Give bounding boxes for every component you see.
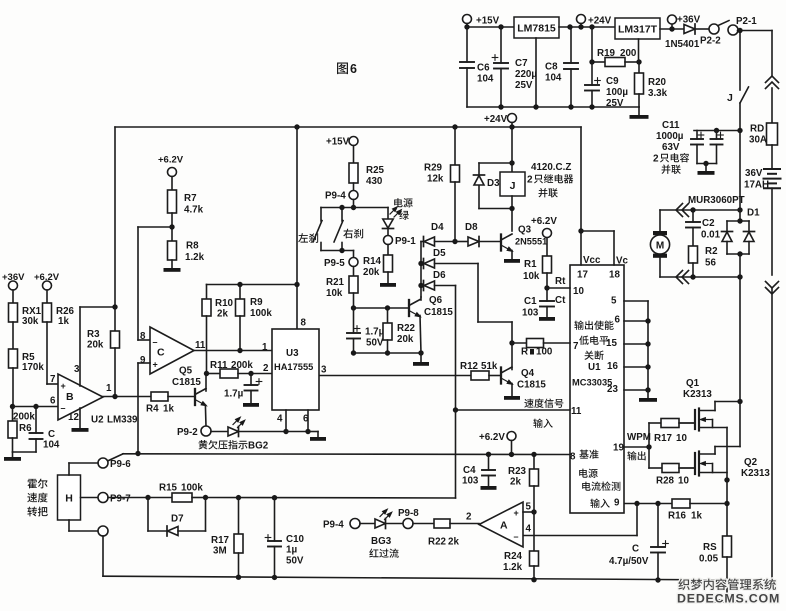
svg-text:1k: 1k bbox=[58, 316, 69, 327]
svg-text:–: – bbox=[514, 532, 519, 542]
resistor R3 20k bbox=[114, 127, 116, 331]
capacitor C6 104 bbox=[466, 27, 468, 62]
label 电流检测/输入9 bbox=[582, 481, 620, 490]
op-amp U2B LM339 bbox=[58, 374, 103, 420]
svg-text:R7: R7 bbox=[184, 193, 197, 204]
svg-text:4: 4 bbox=[277, 414, 283, 425]
svg-text:–: – bbox=[153, 337, 158, 347]
svg-text:4.7k: 4.7k bbox=[184, 205, 204, 216]
svg-text:6: 6 bbox=[615, 315, 621, 326]
svg-text:C1815: C1815 bbox=[424, 307, 453, 318]
svg-text:+15V: +15V bbox=[476, 16, 500, 27]
svg-text:3: 3 bbox=[74, 364, 80, 375]
svg-text:+24V: +24V bbox=[588, 16, 612, 27]
svg-text:+36V: +36V bbox=[2, 272, 25, 283]
svg-text:10: 10 bbox=[678, 476, 689, 487]
svg-text:1.2k: 1.2k bbox=[185, 252, 205, 263]
svg-text:10: 10 bbox=[676, 433, 687, 444]
transistor Q2 K2313 bbox=[680, 467, 695, 469]
svg-text:P9-5: P9-5 bbox=[324, 258, 345, 269]
svg-text:R17: R17 bbox=[654, 433, 673, 444]
label 4120.C.Z 2只继电器 并联 bbox=[531, 162, 571, 173]
wire right rail below battery bbox=[771, 188, 773, 275]
resistor R5 170k bbox=[9, 349, 18, 368]
svg-text:1µ: 1µ bbox=[286, 545, 297, 556]
svg-text:D1: D1 bbox=[747, 208, 760, 219]
resistor R19 200 bbox=[591, 27, 593, 62]
svg-text:C2: C2 bbox=[702, 218, 715, 229]
diode D7 (parallel R15) bbox=[147, 498, 149, 532]
wire H top to P9-6 bbox=[68, 463, 70, 475]
svg-text:20k: 20k bbox=[397, 334, 414, 345]
svg-text:6: 6 bbox=[50, 396, 56, 407]
diode D6 bbox=[421, 285, 424, 287]
wire Q5 collector bbox=[205, 374, 207, 392]
diode pair D1 bbox=[739, 210, 741, 221]
wire +15V to LM7815 input bbox=[466, 24, 468, 28]
ground (R8) bbox=[164, 268, 181, 272]
svg-text:P9-8: P9-8 bbox=[398, 508, 419, 519]
terminal P9-1 bbox=[384, 236, 393, 245]
svg-text:R29: R29 bbox=[424, 163, 443, 174]
svg-text:15: 15 bbox=[606, 338, 617, 349]
svg-text:4120.C.Z: 4120.C.Z bbox=[531, 162, 571, 173]
svg-text:R14: R14 bbox=[363, 256, 382, 267]
svg-text:100: 100 bbox=[536, 347, 553, 358]
wire ref line (+6.2V to pin 8) bbox=[123, 453, 570, 456]
svg-text:19: 19 bbox=[613, 443, 624, 454]
svg-text:P9-6: P9-6 bbox=[110, 459, 131, 470]
svg-text:R9: R9 bbox=[250, 297, 263, 308]
svg-text:200k: 200k bbox=[13, 412, 35, 423]
resistor R28 10 (gate) bbox=[649, 467, 662, 469]
battery 36V 17AH bbox=[764, 168, 780, 170]
svg-text:RS: RS bbox=[703, 542, 717, 553]
label U2 LM339 bbox=[91, 415, 138, 426]
svg-text:17: 17 bbox=[577, 270, 588, 281]
wire U3 pin4/pin6 to BG2 line bbox=[285, 410, 287, 432]
svg-text:LM7815: LM7815 bbox=[517, 23, 556, 35]
svg-text:20k: 20k bbox=[363, 267, 380, 278]
capacitor C8 104 bbox=[570, 27, 572, 63]
node WPM output (pin 19) bbox=[624, 446, 649, 448]
svg-text:2k: 2k bbox=[448, 537, 459, 548]
svg-text:C1: C1 bbox=[524, 296, 537, 307]
ground (C11) bbox=[705, 164, 707, 172]
svg-text:D4: D4 bbox=[431, 222, 444, 233]
chevron marks (down) bbox=[766, 282, 779, 289]
svg-text:WPM: WPM bbox=[627, 432, 651, 443]
terminal +6.2V (R1) bbox=[543, 229, 552, 238]
svg-text:Q1: Q1 bbox=[686, 378, 700, 389]
svg-text:P9-4: P9-4 bbox=[323, 520, 344, 531]
svg-text:1N5401: 1N5401 bbox=[665, 39, 700, 50]
resistor RS 0.05 bbox=[723, 536, 732, 557]
svg-text:DEDECMS.COM: DEDECMS.COM bbox=[677, 592, 780, 606]
svg-text:R19: R19 bbox=[597, 48, 616, 59]
ground (R6/C104) bbox=[12, 452, 14, 457]
svg-text:R8: R8 bbox=[186, 241, 199, 252]
svg-text:2: 2 bbox=[466, 512, 472, 523]
wire P9-6 branch bbox=[108, 454, 124, 461]
resistor R21 10k bbox=[353, 267, 355, 277]
ground (RS, under watermark) bbox=[726, 580, 728, 599]
wire power section bottom rail bbox=[467, 106, 639, 108]
op-amp U2A LM339 (mirrored) bbox=[479, 502, 523, 547]
svg-text:R16: R16 bbox=[668, 511, 687, 522]
svg-text:C9: C9 bbox=[606, 76, 619, 87]
svg-text:Rt: Rt bbox=[555, 276, 566, 287]
ground (power rail) bbox=[638, 107, 640, 115]
LED 电源绿 (green power) bbox=[387, 208, 389, 220]
resistor R20 3.3k bbox=[638, 62, 640, 73]
svg-text:R20: R20 bbox=[648, 77, 667, 88]
svg-text:103: 103 bbox=[462, 476, 479, 487]
svg-text:2: 2 bbox=[653, 154, 659, 165]
wire switched +36V down to motor node bbox=[739, 131, 741, 211]
svg-text:36V: 36V bbox=[745, 168, 763, 179]
sensor H (hall throttle) bbox=[58, 475, 81, 520]
svg-text:Q6: Q6 bbox=[429, 295, 443, 306]
svg-text:7: 7 bbox=[50, 374, 56, 385]
resistor R25 430 bbox=[353, 146, 355, 164]
svg-text:P9-2: P9-2 bbox=[177, 427, 198, 438]
svg-text:+15V: +15V bbox=[326, 137, 350, 148]
svg-text:25V: 25V bbox=[515, 80, 533, 91]
svg-text:8: 8 bbox=[140, 331, 146, 342]
IC U1 MC33035 bbox=[570, 265, 624, 513]
terminal +24V (mid) bbox=[508, 114, 517, 123]
svg-text:30k: 30k bbox=[22, 316, 39, 327]
wire brake top bbox=[321, 207, 388, 209]
svg-text:1.7µ: 1.7µ bbox=[365, 327, 385, 338]
svg-text:MUR3060PT: MUR3060PT bbox=[688, 195, 745, 206]
ground (Q4 emitter) bbox=[511, 384, 513, 397]
relay coil J (box) bbox=[511, 127, 513, 172]
svg-text:A: A bbox=[500, 520, 508, 532]
svg-text:Q2: Q2 bbox=[744, 457, 758, 468]
resistor R4 1k bbox=[151, 392, 168, 401]
svg-text:50V: 50V bbox=[366, 338, 384, 349]
diode D4 bbox=[421, 241, 424, 243]
resistor R1 10k bbox=[546, 238, 548, 257]
svg-text:2: 2 bbox=[527, 175, 533, 186]
watermark DEDECMS.COM bbox=[677, 592, 780, 606]
ground (C1) bbox=[539, 317, 555, 321]
svg-text:R23: R23 bbox=[508, 466, 527, 477]
svg-text:200k: 200k bbox=[231, 360, 253, 371]
wire Q6 base bbox=[354, 307, 410, 309]
svg-text:12: 12 bbox=[68, 412, 79, 423]
svg-text:R22: R22 bbox=[428, 537, 447, 548]
terminal +6.2V (mid) bbox=[507, 432, 516, 441]
svg-text:17AH: 17AH bbox=[744, 180, 769, 191]
svg-text:K2313: K2313 bbox=[683, 389, 712, 400]
resistor R9 100k bbox=[239, 285, 241, 300]
ground (Q3 emitter) bbox=[511, 251, 513, 260]
svg-text:R28: R28 bbox=[656, 476, 675, 487]
resistor R23 2k bbox=[533, 454, 535, 469]
terminal P9-5 bbox=[349, 258, 358, 267]
terminal P9-2 bbox=[201, 426, 211, 436]
wire Rt to pin 10 bbox=[547, 287, 570, 289]
svg-text:U1: U1 bbox=[588, 362, 601, 373]
switch blade P2 bbox=[718, 21, 729, 26]
resistor R11 200k bbox=[207, 373, 221, 375]
wire relay to Q3 collector bbox=[511, 196, 513, 231]
svg-text:C: C bbox=[157, 347, 165, 359]
diode D8 bbox=[455, 241, 468, 243]
label 速度信号/输入 bbox=[524, 399, 563, 408]
svg-text:C: C bbox=[632, 544, 639, 555]
svg-text:2: 2 bbox=[263, 363, 269, 374]
capacitor 1.7u (Q5) bbox=[250, 374, 252, 386]
wire pins 5,6,15,16,23 strapped bbox=[624, 300, 648, 302]
LED BG2 (黄欠压指示) bbox=[211, 431, 228, 433]
terminal P9-4 bbox=[349, 191, 358, 200]
label 基准/电源 bbox=[579, 450, 598, 459]
svg-text:Vcc: Vcc bbox=[583, 255, 601, 266]
resistor R8 1.2k bbox=[168, 241, 177, 260]
relay contact J bbox=[739, 31, 741, 91]
switch 左刹 (left brake) bbox=[320, 208, 322, 222]
svg-text:H: H bbox=[65, 493, 73, 505]
terminal P2-2 bbox=[709, 24, 719, 34]
wire Q6 emitter bbox=[420, 316, 421, 354]
svg-text:1k: 1k bbox=[163, 404, 174, 415]
ground (pins strap) bbox=[647, 390, 649, 398]
ground (R14) bbox=[380, 283, 396, 287]
svg-text:RD: RD bbox=[750, 124, 764, 135]
svg-text:C1815: C1815 bbox=[517, 380, 546, 391]
ground (BG2 line) bbox=[317, 432, 319, 438]
svg-text:11: 11 bbox=[195, 340, 206, 351]
svg-text:R17: R17 bbox=[211, 535, 230, 546]
svg-text:R4: R4 bbox=[146, 404, 159, 415]
regulator LM7815 bbox=[514, 17, 559, 38]
svg-text:430: 430 bbox=[366, 176, 383, 187]
svg-text:R11: R11 bbox=[210, 360, 228, 371]
terminal +24V (top) bbox=[577, 15, 586, 24]
resistor R24 1.2k bbox=[533, 512, 535, 551]
svg-text:9: 9 bbox=[140, 355, 146, 366]
svg-text:1: 1 bbox=[262, 342, 268, 353]
transistor Q5 C1815 bbox=[194, 389, 196, 405]
svg-text:C7: C7 bbox=[515, 58, 528, 69]
svg-text:10k: 10k bbox=[523, 271, 540, 282]
terminal P9-8 bbox=[403, 519, 413, 529]
transistor Q1 K2313 bbox=[680, 422, 695, 424]
svg-text:P9-7: P9-7 bbox=[110, 494, 131, 505]
svg-text:MC33035: MC33035 bbox=[572, 378, 612, 388]
svg-text:P9-1: P9-1 bbox=[395, 236, 416, 247]
svg-text:HA17555: HA17555 bbox=[274, 362, 313, 372]
wire pin 9 (C) to hall line bbox=[138, 362, 150, 364]
svg-text:63V: 63V bbox=[662, 142, 680, 153]
svg-text:6: 6 bbox=[350, 62, 357, 76]
wire LM7815 gnd pin bbox=[535, 38, 537, 107]
svg-text:4.7µ/50V: 4.7µ/50V bbox=[609, 556, 649, 567]
svg-text:+: + bbox=[514, 508, 519, 518]
svg-text:C11: C11 bbox=[662, 120, 680, 131]
wire pin 3 (B) bbox=[79, 307, 81, 386]
wire pin 12 ground bbox=[79, 408, 81, 428]
ground (Q6) bbox=[420, 353, 422, 362]
wire C11 top bbox=[694, 130, 740, 132]
svg-text:+6.2V: +6.2V bbox=[479, 432, 505, 443]
transistor Q4 C1815 bbox=[511, 343, 513, 370]
wire +24V rail right end down to Vcc pin17 bbox=[580, 127, 582, 265]
resistor R29 12k bbox=[454, 127, 456, 165]
wire right rail upper bbox=[771, 31, 773, 77]
resistor R1 100 (pin7) bbox=[512, 342, 527, 344]
svg-text:20k: 20k bbox=[87, 340, 104, 351]
svg-text:1: 1 bbox=[106, 383, 112, 394]
svg-text:3.3k: 3.3k bbox=[648, 88, 668, 99]
label Vcc / Vc bbox=[583, 255, 629, 267]
wire brake bottom bbox=[321, 250, 354, 252]
wire pin 5 bbox=[523, 511, 534, 513]
terminal +15V (top) bbox=[463, 15, 472, 24]
chevron marks (up) bbox=[766, 76, 779, 83]
capacitor C 4.7u/50V bbox=[657, 504, 659, 548]
svg-text:R25: R25 bbox=[366, 165, 385, 176]
svg-text:104: 104 bbox=[477, 74, 494, 85]
svg-text:9: 9 bbox=[614, 498, 620, 509]
resistor RX1 30k bbox=[12, 290, 14, 303]
svg-text:+36V: +36V bbox=[677, 15, 701, 26]
svg-text:D3: D3 bbox=[487, 178, 500, 189]
svg-text:R3: R3 bbox=[87, 329, 100, 340]
wire Q6 collector bbox=[420, 297, 422, 300]
terminal +36V (left) bbox=[9, 281, 18, 290]
svg-text:5: 5 bbox=[611, 296, 617, 307]
wire D-rail bbox=[420, 242, 422, 298]
svg-text:BG2: BG2 bbox=[248, 441, 269, 452]
label 图6 bbox=[337, 63, 348, 75]
svg-text:100k: 100k bbox=[250, 308, 272, 319]
IC U3 HA17555 bbox=[296, 127, 298, 329]
svg-text:+: + bbox=[61, 381, 66, 391]
wire R7/R8 junction to pin8 (C) bbox=[138, 226, 172, 228]
diode 1N5401 bbox=[684, 25, 695, 34]
label 左刹 bbox=[298, 233, 318, 243]
resistor R6 200k bbox=[12, 407, 14, 422]
wire right rail to bottom bbox=[771, 288, 773, 580]
svg-text:D7: D7 bbox=[171, 514, 184, 525]
svg-text:U3: U3 bbox=[286, 348, 299, 359]
svg-text:56: 56 bbox=[705, 258, 716, 269]
svg-text:3: 3 bbox=[321, 365, 327, 376]
svg-text:104: 104 bbox=[43, 440, 60, 451]
capacitor C 104 (left) bbox=[35, 407, 37, 434]
svg-text:1.7µ: 1.7µ bbox=[224, 389, 244, 400]
wire throttle to speed node bbox=[455, 410, 457, 498]
svg-text:3M: 3M bbox=[213, 546, 227, 557]
wire H mid to P9-7 bbox=[81, 497, 99, 499]
terminal P9-6 bbox=[98, 458, 108, 468]
label 输出 (WPM) bbox=[627, 451, 645, 460]
svg-text:D5: D5 bbox=[433, 248, 446, 259]
svg-text:51k: 51k bbox=[481, 361, 498, 372]
wire motor top bbox=[660, 209, 740, 211]
svg-text:1k: 1k bbox=[691, 511, 702, 522]
resistor R17 10 (gate) bbox=[649, 422, 661, 424]
wire bbox=[771, 145, 773, 168]
chevron cable mark bbox=[676, 204, 683, 217]
wire Q5 emitter to P9-2 bbox=[204, 405, 207, 426]
wire bbox=[771, 88, 773, 123]
wire bottom rail bbox=[103, 576, 772, 580]
svg-text:200: 200 bbox=[620, 48, 637, 59]
svg-text:J: J bbox=[510, 180, 516, 192]
svg-text:R24: R24 bbox=[504, 551, 523, 562]
svg-text:LM317T: LM317T bbox=[618, 24, 658, 36]
op-amp U2C LM339 bbox=[150, 327, 194, 374]
capacitor C4 103 bbox=[488, 454, 490, 470]
svg-text:+24V: +24V bbox=[484, 114, 508, 125]
resistor R16 1k bbox=[624, 503, 672, 505]
svg-text:R22: R22 bbox=[397, 323, 416, 334]
svg-text:R: R bbox=[521, 347, 528, 358]
svg-text:170k: 170k bbox=[22, 362, 44, 373]
label 霍尔/速度/转把 bbox=[27, 479, 47, 489]
capacitor C11 1000u 63V (x2 parallel) bbox=[696, 131, 698, 140]
wire Q2 drain to motor-minus bbox=[739, 402, 741, 447]
wire D5 to R(100)/Q4 bbox=[477, 264, 479, 323]
svg-text:C10: C10 bbox=[286, 534, 305, 545]
svg-text:LM339: LM339 bbox=[107, 415, 138, 426]
terminal P9-7 bbox=[98, 493, 108, 503]
svg-text:104: 104 bbox=[545, 73, 562, 84]
svg-text:P9-4: P9-4 bbox=[325, 191, 346, 202]
svg-text:P2-1: P2-1 bbox=[736, 16, 757, 27]
resistor R7 4.7k bbox=[171, 177, 173, 191]
svg-text:0.01: 0.01 bbox=[701, 230, 721, 241]
svg-text:4: 4 bbox=[526, 524, 532, 535]
resistor R15 100k bbox=[148, 497, 172, 499]
wire motor bottom bbox=[660, 276, 740, 278]
svg-text:100k: 100k bbox=[181, 483, 203, 494]
svg-text:0.05: 0.05 bbox=[699, 554, 719, 565]
svg-text:18: 18 bbox=[609, 270, 620, 281]
svg-text:11: 11 bbox=[571, 406, 582, 417]
terminal P9-4 (BG3) bbox=[350, 519, 360, 529]
fuse RD 30A bbox=[767, 123, 778, 145]
svg-text:B: B bbox=[66, 391, 74, 403]
svg-text:–: – bbox=[61, 403, 66, 413]
wire Q source to shunt bbox=[726, 480, 728, 536]
wire current sense feedback (to op-amp A pin 4) bbox=[636, 504, 638, 536]
diode D5 bbox=[421, 263, 424, 265]
wire LM317T adj pin bbox=[638, 39, 640, 62]
resistor R12 51k bbox=[319, 375, 471, 377]
svg-text:10: 10 bbox=[573, 286, 584, 297]
svg-text:K2313: K2313 bbox=[741, 468, 770, 479]
switch 右刹 (right brake) bbox=[341, 208, 343, 222]
resistor R26 1k bbox=[46, 290, 48, 303]
svg-text:R21: R21 bbox=[326, 277, 345, 288]
resistor R22 2k bbox=[413, 523, 434, 525]
svg-text:M: M bbox=[656, 241, 664, 252]
svg-text:12k: 12k bbox=[427, 174, 444, 185]
svg-text:C4: C4 bbox=[463, 465, 476, 476]
svg-text:7: 7 bbox=[573, 341, 579, 352]
terminal +36V bbox=[660, 28, 684, 30]
resistor R17 3M bbox=[238, 498, 240, 534]
terminal +6.2V (R7) bbox=[168, 168, 177, 177]
svg-text:16: 16 bbox=[607, 361, 618, 372]
